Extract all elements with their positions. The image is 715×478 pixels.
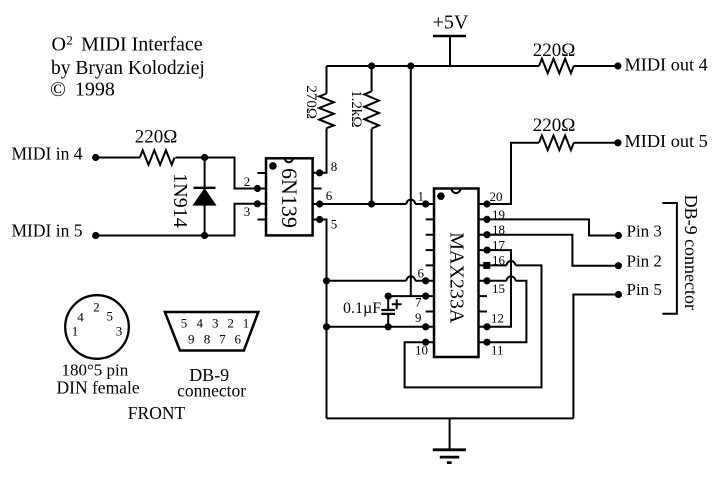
- wire DB9 Pin 5 to ground rail: [573, 295, 618, 419]
- svg-text:FRONT: FRONT: [128, 403, 186, 423]
- wire MAX pin20 to MIDI out 5: [487, 143, 539, 204]
- svg-text:7: 7: [219, 331, 226, 346]
- svg-text:MIDI out 4: MIDI out 4: [625, 55, 708, 75]
- DIN connector front view circle: [65, 295, 129, 359]
- wire R4 to node pin6 wire: [371, 129, 373, 204]
- node MAX pin7 dot: [422, 293, 429, 300]
- svg-text:4: 4: [77, 310, 84, 325]
- node U2 pin20 dot: [483, 200, 490, 207]
- svg-text:+5V: +5V: [433, 12, 469, 34]
- capacitor C1 0.1uF leads: [387, 296, 389, 327]
- svg-text:3: 3: [116, 324, 123, 339]
- junction dot pin5 wire / pin6 max wire: [323, 277, 330, 284]
- svg-text:1: 1: [418, 189, 425, 204]
- junction dot rail/feed: [407, 62, 414, 69]
- svg-text:6: 6: [234, 331, 241, 346]
- svg-text:20: 20: [490, 189, 503, 204]
- junction dot diode bottom: [201, 232, 208, 239]
- DB-9 connector front view trapezoid: [165, 312, 258, 351]
- node U2 pin10 dot: [422, 339, 429, 346]
- svg-text:2: 2: [66, 33, 73, 48]
- wire to MAX pin6 (hop over +5V feed): [327, 276, 426, 280]
- wire +5V top rail (left part): [327, 65, 540, 67]
- node MIDI in 4 terminal dot: [92, 154, 99, 161]
- node 6N139 pin2 dot: [254, 185, 261, 192]
- junction dot R4/pin6 wire: [368, 200, 375, 207]
- U2 left pin stubs: [426, 204, 434, 342]
- svg-text:5: 5: [181, 316, 188, 331]
- wire R3 to 6N139 pin 8: [320, 128, 327, 172]
- op-to-coupler U1 6N139 body: [266, 158, 313, 235]
- wire R2 to MIDI out 5: [574, 142, 618, 144]
- svg-text:©: ©: [50, 77, 66, 101]
- svg-text:MIDI out 5: MIDI out 5: [625, 131, 708, 151]
- node U2 pin11 dot: [483, 339, 490, 346]
- svg-text:1998: 1998: [75, 79, 115, 101]
- node U2 pin16 square pad: [483, 262, 490, 269]
- wire rail to resistor R3: [326, 66, 328, 94]
- capacitor C1 plates: [381, 310, 395, 314]
- wire ground rail bottom: [327, 417, 574, 419]
- node 6N139 pin3 dot: [254, 200, 261, 207]
- svg-text:11: 11: [491, 343, 504, 358]
- U1 right pin stubs: [313, 173, 322, 220]
- junction dot pin5 wire / pin9 max wire: [323, 323, 330, 330]
- wire U2 pin17 to pin12: [487, 250, 511, 327]
- U2 pin1 marker dot: [437, 192, 445, 200]
- junction dot cap top: [385, 293, 392, 300]
- diode D1 cathode bar: [194, 187, 216, 189]
- wire MIDI in 5 to 6N139 pin 3: [96, 204, 258, 236]
- wire capacitor top to MAX pin7: [388, 295, 426, 297]
- svg-text:by Bryan Kolodziej: by Bryan Kolodziej: [51, 58, 205, 79]
- wire +5V feed vertical to MAX pin7: [410, 66, 412, 296]
- svg-text:3: 3: [244, 204, 251, 219]
- svg-text:9: 9: [188, 331, 195, 346]
- svg-text:1.2kΩ: 1.2kΩ: [348, 90, 364, 127]
- resistor R5 220ohm (MIDI in): [140, 150, 175, 165]
- svg-text:15: 15: [492, 281, 505, 296]
- svg-text:Pin 5: Pin 5: [627, 280, 662, 299]
- wire MIDI in 4 to R5: [96, 157, 140, 159]
- node Pin 5 terminal dot: [615, 291, 622, 298]
- diode D1 1N914 body wire: [204, 158, 206, 236]
- U1 notch: [285, 158, 293, 162]
- svg-text:5: 5: [331, 217, 338, 232]
- wire U2 pin18 to DB9 Pin 2: [487, 235, 618, 266]
- junction dot cap bottom: [385, 323, 392, 330]
- svg-text:8: 8: [331, 159, 338, 174]
- svg-text:2: 2: [93, 299, 100, 314]
- wire +5V stub: [449, 36, 451, 66]
- svg-text:1N914: 1N914: [169, 173, 191, 227]
- svg-text:270Ω: 270Ω: [303, 85, 319, 119]
- wire U2 pin15 to pin11 (hop over 17-12 wire): [487, 276, 526, 342]
- DB-9 connector bracket: [662, 203, 677, 314]
- svg-text:MIDI in 4: MIDI in 4: [12, 144, 83, 164]
- svg-text:2: 2: [227, 316, 234, 331]
- node U1 pin5 dot: [316, 216, 323, 223]
- node MAX pin9 dot: [422, 323, 429, 330]
- power +5V symbol bar: [433, 35, 466, 37]
- wire R5 to 6N139 pin 2: [175, 158, 257, 189]
- node MIDI out 4 terminal dot: [614, 62, 621, 69]
- node MIDI out 5 terminal dot: [614, 139, 621, 146]
- node U2 pin12 dot: [483, 323, 490, 330]
- node U2 pin15 dot: [483, 277, 490, 284]
- svg-text:MIDI in 5: MIDI in 5: [12, 221, 83, 241]
- diode D1 triangle: [194, 190, 214, 205]
- svg-text:O: O: [52, 34, 66, 56]
- svg-text:8: 8: [204, 331, 211, 346]
- svg-text:0.1µF: 0.1µF: [343, 300, 381, 317]
- svg-text:DIN female: DIN female: [57, 377, 140, 397]
- wire R1 to MIDI out 4: [574, 65, 618, 67]
- wire U1 pin5 down to ground rail: [320, 220, 327, 419]
- svg-text:DB-9 connector: DB-9 connector: [681, 195, 701, 310]
- node U1 pin6 dot: [316, 200, 323, 207]
- resistor R4 1.2kohm: [364, 91, 379, 128]
- svg-text:3: 3: [212, 316, 219, 331]
- svg-text:6N139: 6N139: [277, 168, 302, 228]
- node U1 pin8 dot: [316, 169, 323, 176]
- svg-text:6: 6: [418, 266, 425, 281]
- U2 right pin stubs: [479, 204, 488, 342]
- U1 pin1 marker dot: [269, 162, 277, 170]
- node U2 pin19 dot: [483, 216, 490, 223]
- svg-text:7: 7: [415, 295, 422, 310]
- node MAX pin6 dot: [422, 277, 429, 284]
- title annotation: O2 MIDI Interface / by Bryan Kolodziej / (c) 1998: [50, 33, 205, 101]
- node U2 pin18 dot: [483, 231, 490, 238]
- svg-text:Pin 2: Pin 2: [627, 252, 662, 271]
- node MAX pin1 dot: [422, 200, 429, 207]
- ground symbol: [433, 418, 466, 462]
- svg-text:1: 1: [243, 316, 250, 331]
- node Pin 3 terminal dot: [615, 232, 622, 239]
- svg-text:MAX233A: MAX233A: [446, 232, 468, 324]
- resistor R1 220ohm (MIDI out 4): [539, 59, 574, 74]
- svg-text:MIDI Interface: MIDI Interface: [81, 34, 203, 56]
- node Pin 2 terminal dot: [615, 262, 622, 269]
- svg-text:6: 6: [326, 188, 333, 203]
- junction dot diode top: [201, 154, 208, 161]
- capacitor C1 plus sign: [392, 299, 402, 309]
- svg-text:1: 1: [72, 324, 79, 339]
- resistor R2 220ohm (MIDI out 5): [539, 136, 574, 151]
- wire to MAX pin9: [327, 326, 426, 328]
- svg-text:220Ω: 220Ω: [533, 115, 576, 136]
- svg-text:9: 9: [415, 310, 422, 325]
- junction dot rail/270ohm: [368, 62, 375, 69]
- node U2 pin17 dot: [483, 247, 490, 254]
- svg-text:4: 4: [196, 316, 203, 331]
- node MIDI in 5 terminal dot: [92, 232, 99, 239]
- svg-text:220Ω: 220Ω: [135, 126, 178, 147]
- IC U2 MAX233A body: [434, 189, 479, 358]
- svg-text:Pin 3: Pin 3: [627, 222, 662, 241]
- svg-text:2: 2: [244, 174, 251, 189]
- resistor R3 270ohm: [319, 94, 334, 129]
- svg-text:12: 12: [491, 310, 504, 325]
- U2 notch: [452, 189, 461, 194]
- wire U1 pin6 to MAX pin1 (hop over +5V feed): [320, 200, 426, 204]
- svg-text:220Ω: 220Ω: [533, 40, 576, 61]
- svg-text:connector: connector: [177, 380, 246, 400]
- wire U2 pin16 to pin10 (hop over 17-12 wire): [405, 261, 542, 387]
- svg-text:5: 5: [107, 309, 114, 324]
- U1 left pin stubs: [257, 173, 266, 220]
- wire U2 pin19 to DB9 Pin 3: [487, 219, 618, 235]
- wire rail to resistor R4: [371, 66, 373, 91]
